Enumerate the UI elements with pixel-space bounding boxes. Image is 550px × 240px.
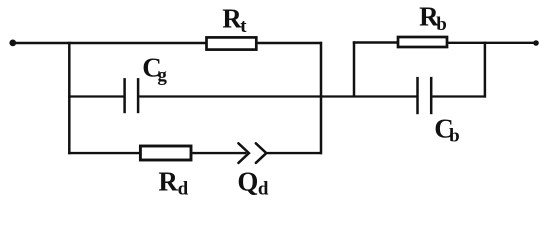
wire: Cg right plate across to Cb left plate (middle bus) [139, 95, 417, 97]
wire: Qd to node B vertical [266, 152, 322, 154]
wire: left vertical bus (node A) [68, 42, 71, 154]
label Qd [237, 166, 269, 199]
svg-text:R: R [158, 167, 178, 197]
svg-text:R: R [222, 4, 242, 34]
resistor R1 (Rt) body [207, 37, 257, 49]
wire: Rb to right terminal [447, 42, 536, 44]
capacitor C2 (Cb) right plate [430, 77, 433, 114]
svg-text:t: t [240, 16, 247, 37]
capacitor C1 (Cg) left plate [123, 78, 126, 113]
wire: Rb-section left riser [353, 41, 356, 96]
wire: Rt to node B vertical [258, 42, 323, 44]
wire: riser to Rb [353, 41, 398, 43]
label Rb [419, 2, 447, 35]
svg-text:d: d [258, 178, 269, 199]
label Cb [434, 114, 459, 147]
svg-text:g: g [157, 65, 167, 86]
wire: Cb right plate to right riser [432, 95, 486, 97]
svg-text:b: b [436, 14, 447, 35]
resistor R3 (Rb) body [398, 37, 447, 47]
wire: node A to Cg left plate [68, 95, 124, 97]
capacitor C1 (Cg) right plate [137, 78, 140, 113]
svg-text:Q: Q [237, 166, 258, 196]
svg-text:b: b [449, 126, 460, 147]
CPE Qd chevron 2 [256, 143, 266, 163]
svg-text:d: d [178, 178, 189, 199]
wire: left terminal to node A (top) [13, 42, 206, 44]
wire: Rd to Qd [193, 152, 247, 154]
resistor R2 (Rd) body [140, 146, 191, 160]
wire: node A down-leg to Rd [68, 152, 140, 154]
capacitor C2 (Cb) left plate [416, 77, 419, 114]
CPE Qd chevron 1 [238, 143, 249, 163]
label Rt [222, 4, 247, 37]
label Cg [142, 53, 167, 86]
left terminal dot [9, 40, 16, 47]
right terminal dot [533, 40, 539, 46]
wire: right riser [484, 42, 487, 98]
wire: node B vertical bus [320, 42, 323, 155]
label Rd [158, 167, 188, 200]
